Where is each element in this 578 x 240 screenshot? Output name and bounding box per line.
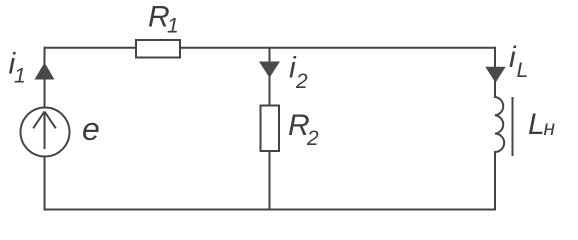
- current arrow i2 (down): [259, 62, 280, 78]
- wire left branch upper: [44, 47, 46, 108]
- resistor R1: [136, 40, 180, 58]
- svg-text:e: e: [82, 111, 100, 147]
- source e (circle with arrow): [21, 108, 70, 157]
- current arrow iL (down): [485, 67, 505, 83]
- wire top horizontal: [44, 47, 497, 49]
- current arrow i1 (up): [35, 63, 55, 80]
- wire middle branch lower: [269, 151, 271, 211]
- svg-text:L: L: [528, 108, 545, 141]
- label R2: [288, 109, 319, 150]
- svg-text:1: 1: [14, 65, 26, 88]
- svg-text:н: н: [544, 117, 556, 140]
- label iL: [509, 41, 528, 82]
- label R1: [148, 0, 179, 37]
- wire right branch upper: [494, 47, 496, 98]
- svg-text:2: 2: [295, 70, 308, 93]
- wire middle branch upper: [269, 47, 271, 106]
- label Lн: [528, 108, 556, 141]
- wire left branch lower: [44, 157, 46, 211]
- label i1: [9, 48, 26, 88]
- inductor core bar: [512, 97, 514, 156]
- inductor Lн coil: [495, 97, 504, 152]
- svg-text:L: L: [517, 59, 529, 82]
- resistor R2: [261, 106, 280, 152]
- wire right branch lower: [494, 151, 496, 211]
- wire bottom horizontal: [44, 209, 497, 211]
- svg-text:2: 2: [306, 127, 319, 150]
- label i2: [289, 52, 308, 93]
- svg-text:1: 1: [167, 15, 179, 38]
